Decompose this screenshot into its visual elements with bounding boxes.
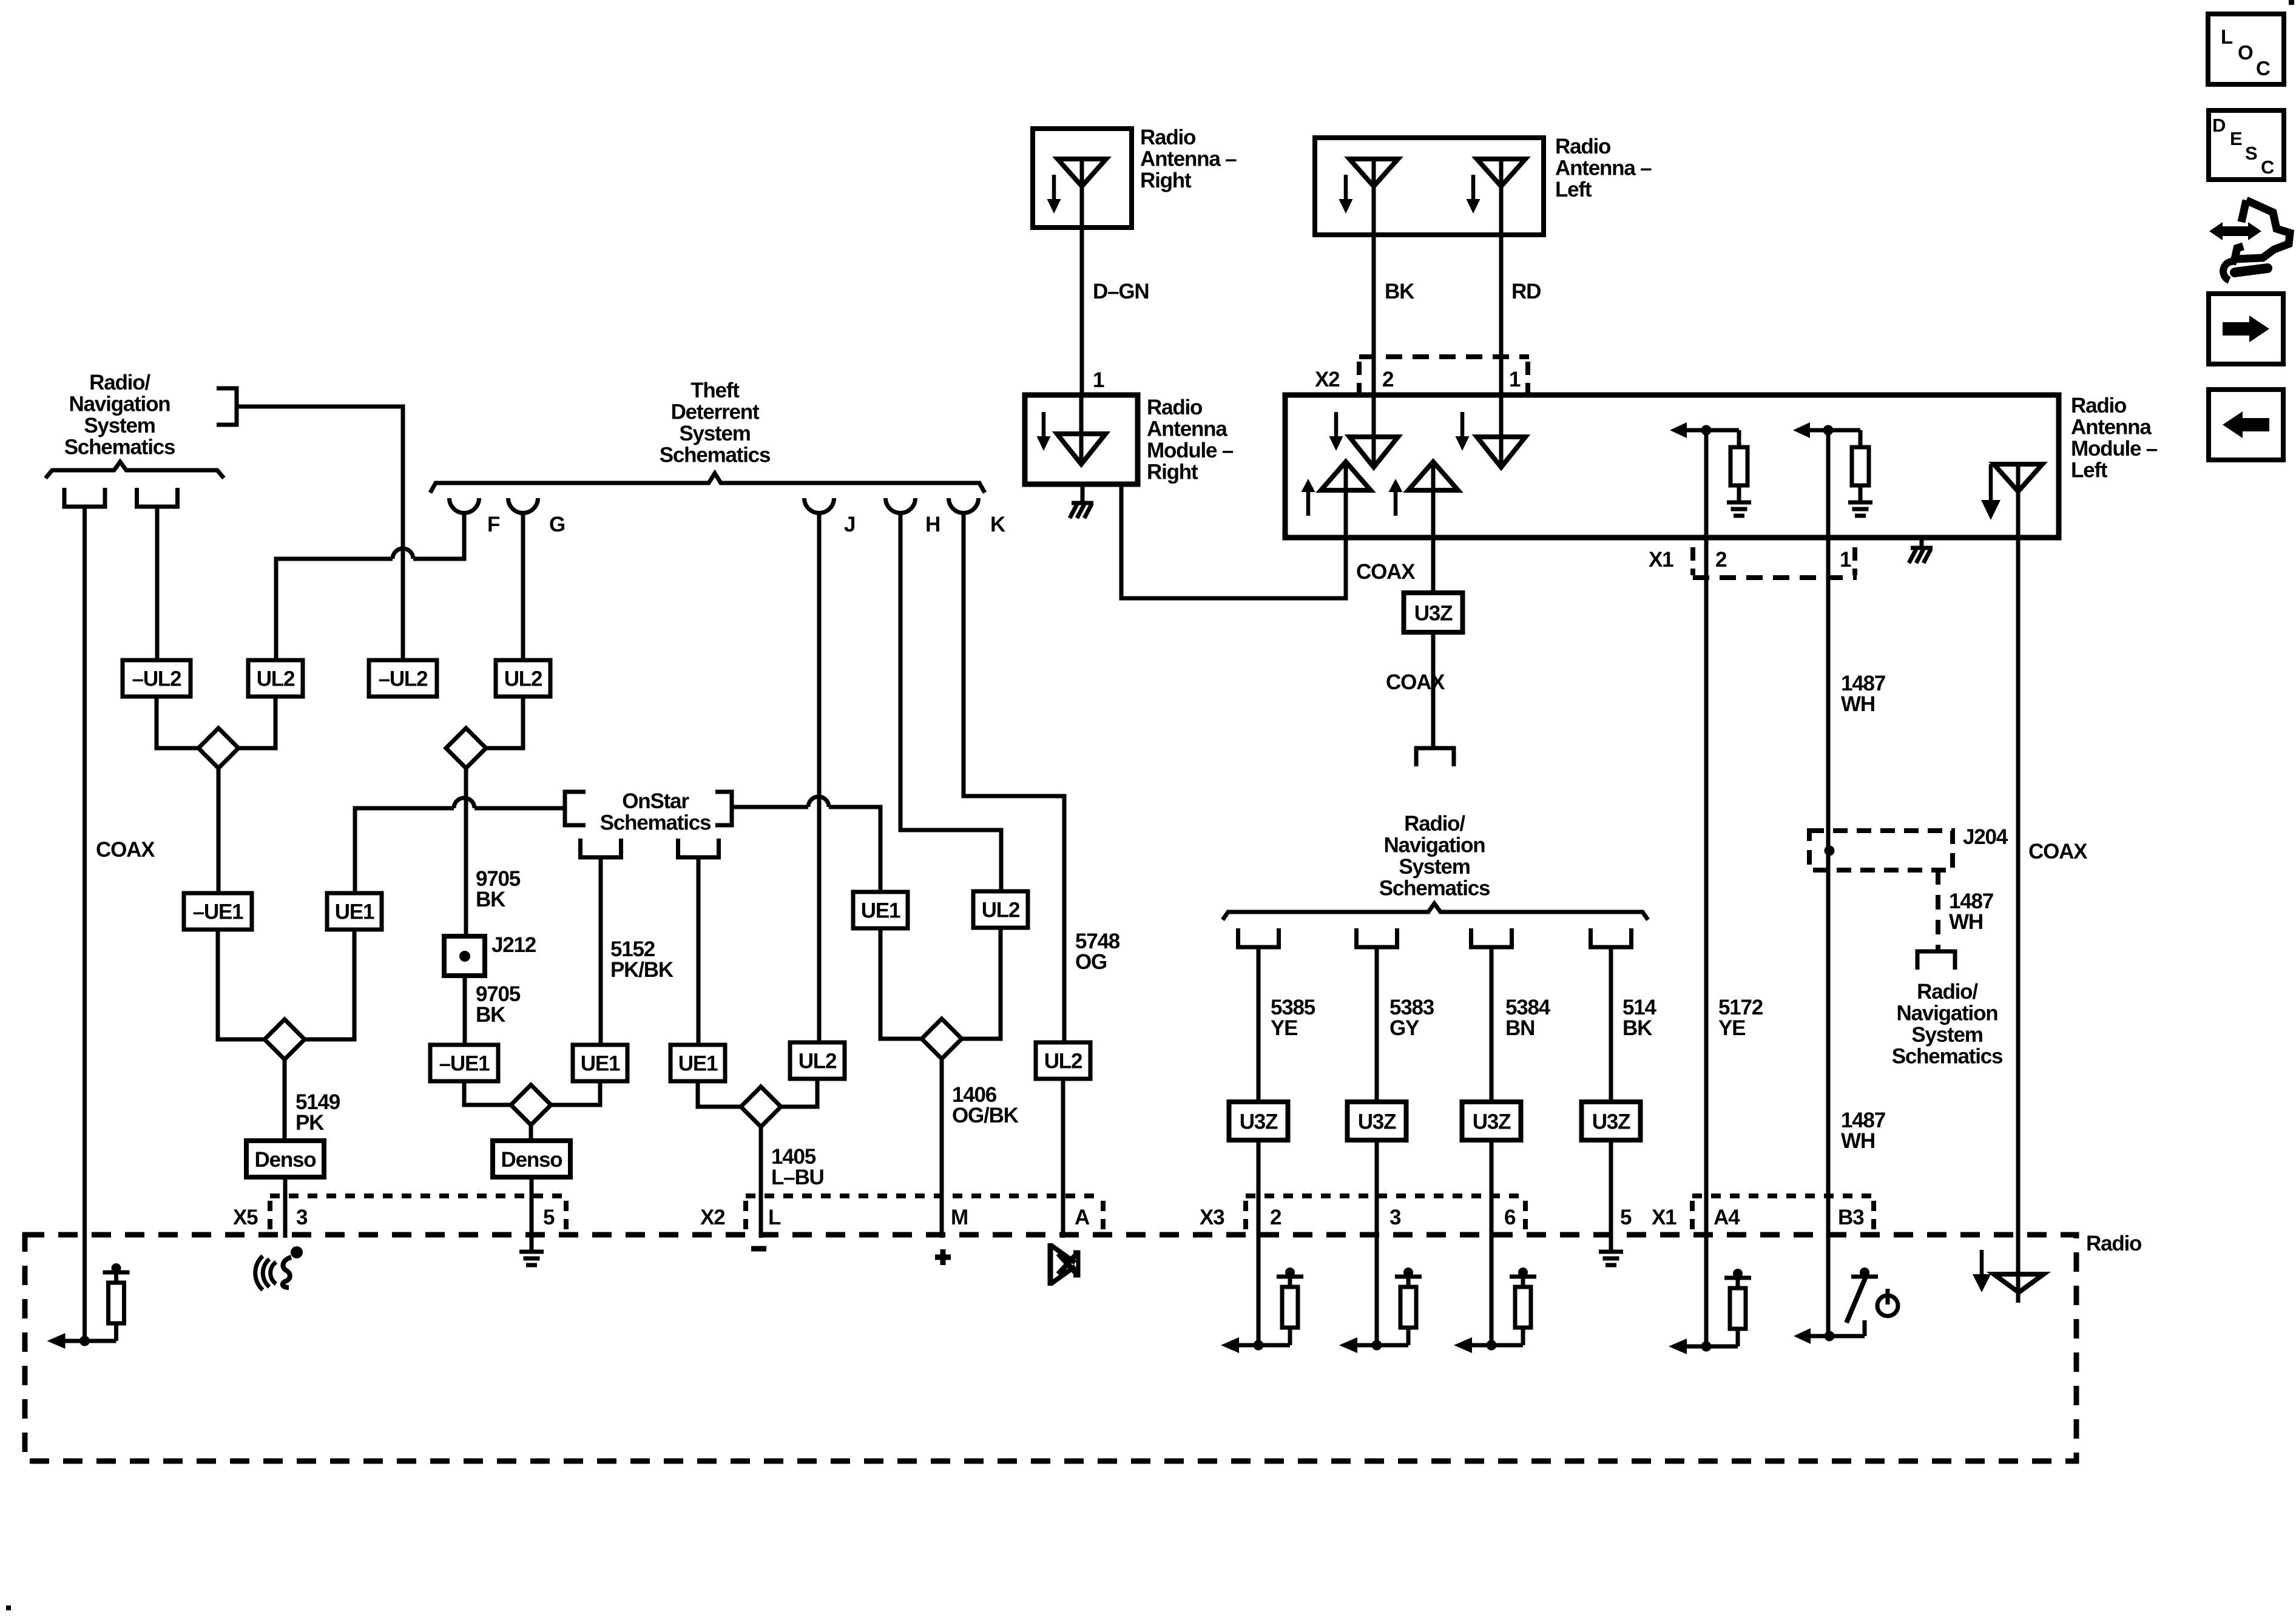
option box UL2 c on J wire	[790, 1042, 845, 1079]
option box UL2 d on H wire	[973, 891, 1028, 928]
brace for radio navigation schematics bottom middle	[1223, 903, 1648, 920]
wire 5383 GY	[1375, 947, 1379, 1102]
svg-text:X1: X1	[1652, 1206, 1676, 1229]
connector to radio navigation schematics (J204 branch)	[1917, 951, 1955, 970]
wire BK from Radio Antenna Left to module pin 2	[1372, 235, 1376, 395]
dashed branch wire from J204	[1936, 870, 1940, 951]
svg-text:A: A	[1075, 1206, 1090, 1229]
wire 5152 PK/BK	[599, 857, 603, 1045]
svg-text:Left: Left	[1555, 178, 1592, 201]
svg-text:C: C	[2256, 57, 2271, 79]
svg-text:Schematics: Schematics	[1892, 1045, 2003, 1068]
wire COAX far left	[83, 507, 87, 1341]
connector X1 dashed line of module left	[1693, 575, 1857, 580]
termination resistor network at radio pin 2	[1221, 1337, 1239, 1353]
option box UL2 e on K wire	[1036, 1042, 1090, 1079]
signal arrow up 1 in module left	[1306, 490, 1311, 516]
option box UE1 a	[327, 893, 382, 930]
wire UE1 d to splice 5	[880, 928, 922, 1039]
connector K half circle	[949, 498, 979, 513]
OnStar left bracket	[565, 792, 586, 825]
wire COAX below U3Z	[1431, 632, 1436, 748]
plus sign below pin M	[935, 1255, 951, 1260]
icon box arrow right	[2209, 294, 2283, 364]
Radio Antenna - Left box	[1315, 138, 1544, 235]
wire 5385 YE	[1257, 947, 1261, 1102]
svg-text:Schematics: Schematics	[600, 811, 711, 835]
svg-text:U3Z: U3Z	[1240, 1110, 1278, 1134]
svg-text:Radio: Radio	[2071, 394, 2127, 417]
wire OnStar left continue	[474, 806, 565, 811]
svg-text:–UE1: –UE1	[193, 900, 243, 924]
connector X2 dotted outline at radio	[746, 1193, 1103, 1198]
wire from off-page bracket to -UL2 b	[237, 407, 403, 554]
wire 5172 YE from module left pin 2	[1704, 430, 1709, 1346]
svg-text:System: System	[84, 414, 155, 437]
wire from OnStar right bracket	[732, 805, 808, 809]
svg-text:U3Z: U3Z	[1358, 1110, 1396, 1134]
antenna symbol in Radio Antenna - Right	[1058, 159, 1106, 186]
svg-text:BN: BN	[1505, 1016, 1535, 1040]
wire UL2 e to radio pin A	[1061, 1079, 1065, 1238]
microphone symbol inside radio	[255, 1246, 303, 1290]
wire splice2 to J212 9705 BK	[464, 768, 468, 936]
svg-text:U3Z: U3Z	[1414, 602, 1453, 626]
antenna down 2 in module left	[1477, 437, 1525, 467]
option box UL2 b	[496, 660, 550, 697]
brace for radio navigation schematics top left	[46, 462, 224, 478]
svg-text:Radio: Radio	[2086, 1232, 2142, 1255]
switch contact bar	[1851, 1275, 1878, 1279]
svg-text:Radio: Radio	[1140, 126, 1196, 149]
signal arrow down 2 in module left	[1460, 412, 1465, 438]
svg-text:–UE1: –UE1	[439, 1052, 490, 1076]
svg-text:UE1: UE1	[678, 1052, 718, 1076]
wire 5384 BN	[1490, 947, 1494, 1102]
connector X2 tick left	[1357, 362, 1362, 393]
icon box DESC	[2209, 110, 2284, 180]
hop bump on OnStar left wire at x766	[454, 798, 474, 808]
page artifact dot bottom left	[6, 1605, 11, 1610]
svg-text:RD: RD	[1511, 280, 1541, 303]
connector J half circle	[805, 498, 834, 513]
svg-text:WH: WH	[1841, 1129, 1875, 1153]
U3Z box 1	[1229, 1102, 1288, 1140]
svg-text:O: O	[2238, 41, 2254, 64]
svg-text:Navigation: Navigation	[1384, 834, 1485, 857]
antenna symbol at radio coax right	[1994, 1274, 2044, 1292]
svg-text:UL2: UL2	[257, 667, 295, 691]
wire UL2 b to splice 2	[486, 697, 523, 748]
wire COAX from module right to antenna up 1	[1121, 484, 1346, 598]
hop bump on F wire over -UL2 wire	[393, 549, 413, 559]
U3Z box 2	[1348, 1102, 1406, 1140]
wire J connector drop	[817, 513, 822, 1042]
module left internal arrow tap 1	[1670, 422, 1687, 438]
svg-text:5: 5	[1620, 1206, 1632, 1229]
splice J212 box	[444, 936, 485, 976]
minus sign below pin L	[751, 1246, 766, 1252]
svg-text:Denso: Denso	[501, 1148, 563, 1172]
wire U3Z 2 to radio pin 3	[1375, 1140, 1379, 1345]
svg-text:Antenna: Antenna	[2071, 416, 2152, 439]
svg-text:Schematics: Schematics	[660, 444, 771, 467]
svg-text:BK: BK	[1622, 1016, 1652, 1040]
wire UL2 a to splice	[238, 697, 275, 748]
antenna down 1 in module left	[1349, 437, 1398, 467]
svg-text:–UL2: –UL2	[379, 667, 428, 691]
wire F to UL2 a	[276, 559, 393, 660]
antenna up 2 in module left	[1408, 462, 1458, 490]
connector OnStar schematics right	[678, 839, 719, 857]
svg-text:COAX: COAX	[1386, 670, 1445, 694]
svg-text:X2: X2	[700, 1206, 725, 1229]
svg-text:L: L	[2221, 25, 2233, 48]
connector X1 tick left	[1690, 547, 1695, 575]
svg-text:2: 2	[1715, 548, 1727, 572]
svg-text:System: System	[1399, 855, 1470, 879]
splice diamond 1	[198, 728, 238, 768]
svg-text:Antenna: Antenna	[1147, 417, 1227, 441]
signal arrow down right in module left	[1989, 464, 1993, 502]
svg-text:OG: OG	[1075, 950, 1107, 974]
svg-text:X1: X1	[1649, 548, 1673, 572]
svg-text:3: 3	[296, 1206, 308, 1229]
wire Denso 1 to radio pin 3	[283, 1177, 288, 1238]
connector OnStar schematics left	[581, 839, 621, 857]
connector X2 tick right	[1525, 362, 1530, 393]
svg-text:G: G	[549, 513, 565, 536]
connector radio nav 1	[1238, 928, 1279, 947]
wire K connector drop	[964, 513, 1064, 1042]
svg-text:D–GN: D–GN	[1093, 280, 1149, 303]
signal ground 2 in module left	[1859, 485, 1863, 502]
svg-text:X3: X3	[1200, 1206, 1224, 1229]
svg-text:Schematics: Schematics	[1379, 877, 1490, 900]
option box -UL2 a	[123, 660, 191, 697]
signal arrow up 2 in module left	[1394, 490, 1398, 516]
connector to radio navigation schematics left coax	[64, 488, 105, 507]
wire UE1 a to splice 3	[305, 930, 354, 1039]
svg-text:1: 1	[1509, 368, 1521, 391]
wire -UE1 a to splice 3	[218, 930, 265, 1039]
splice pack J204 dashed box	[1809, 831, 1953, 870]
page artifact dot top right	[2289, 0, 2294, 5]
svg-text:Theft: Theft	[690, 379, 740, 402]
termination resistor network at radio pin 6	[1454, 1337, 1472, 1353]
connector X3 dotted outline at radio	[1246, 1193, 1525, 1198]
svg-text:PK/BK: PK/BK	[610, 958, 674, 982]
wire splice4 to Denso 2	[529, 1125, 533, 1141]
svg-text:2: 2	[1270, 1206, 1281, 1229]
signal arrow in module right	[1042, 412, 1046, 438]
antenna symbol in module right	[1057, 434, 1106, 464]
svg-text:E: E	[2230, 128, 2243, 149]
svg-text:UE1: UE1	[335, 900, 374, 924]
svg-text:M: M	[951, 1206, 968, 1229]
wire RD from Radio Antenna Left to module pin 1	[1499, 235, 1504, 395]
off-page bracket connector top left	[217, 388, 237, 425]
svg-text:Deterrent: Deterrent	[671, 400, 760, 424]
signal arrow 1 in Radio Antenna - Left	[1344, 175, 1348, 201]
connector X1 tick right	[1852, 547, 1857, 575]
chassis ground under module left	[1920, 538, 1924, 547]
svg-text:Navigation: Navigation	[69, 393, 171, 416]
svg-text:COAX: COAX	[2028, 840, 2088, 863]
svg-text:UL2: UL2	[1044, 1050, 1082, 1073]
svg-text:UE1: UE1	[581, 1052, 620, 1076]
wire F connector drop	[413, 513, 464, 559]
signal arrow in Radio Antenna - Right	[1052, 175, 1056, 201]
svg-text:6: 6	[1504, 1206, 1516, 1229]
connector F half circle	[450, 498, 479, 513]
svg-text:COAX: COAX	[96, 838, 155, 862]
connector G half circle	[508, 498, 538, 513]
wire U3Z 3 to radio pin 6	[1490, 1140, 1494, 1345]
svg-text:B3: B3	[1838, 1206, 1864, 1229]
signal ground at radio X3 pin 5	[1599, 1250, 1623, 1254]
svg-text:F: F	[487, 513, 500, 536]
svg-text:WH: WH	[1949, 910, 1983, 934]
splice diamond 5	[922, 1019, 962, 1059]
svg-text:C: C	[2261, 157, 2274, 178]
U3Z option box on coax	[1404, 593, 1463, 632]
svg-text:Right: Right	[1140, 169, 1192, 192]
wire splice1 to -UE1 a	[217, 768, 221, 893]
wire G connector drop	[521, 513, 525, 660]
svg-text:Module –: Module –	[1147, 439, 1234, 462]
svg-text:Radio: Radio	[1147, 396, 1203, 419]
wire Denso 2 to radio pin 5 ground	[530, 1177, 534, 1252]
splice diamond 3	[265, 1019, 305, 1059]
connector radio nav 3	[1471, 928, 1512, 947]
svg-text:Radio/: Radio/	[1917, 980, 1978, 1004]
brace for theft deterrent schematics	[430, 473, 985, 493]
svg-text:U3Z: U3Z	[1592, 1110, 1630, 1134]
termination resistor network at radio coax left	[47, 1333, 66, 1349]
termination resistor network at radio pin 3	[1339, 1337, 1357, 1353]
svg-text:OG/BK: OG/BK	[952, 1104, 1019, 1127]
wire from antenna up 2 to U3Z	[1431, 491, 1436, 593]
U3Z box 3	[1462, 1102, 1521, 1140]
svg-text:Radio: Radio	[1555, 135, 1611, 158]
connector radio nav 4	[1591, 928, 1632, 947]
svg-text:WH: WH	[1841, 692, 1875, 716]
wire D-GN from Radio Antenna Right pin to module	[1080, 228, 1084, 395]
connector X1 dotted outline at radio	[1692, 1193, 1874, 1198]
Radio Antenna Module - Right box	[1025, 395, 1138, 484]
chassis ground under module right	[1081, 484, 1085, 502]
svg-text:Navigation: Navigation	[1897, 1002, 1998, 1025]
module left internal resistor 1	[1737, 430, 1741, 447]
svg-text:UE1: UE1	[861, 899, 900, 923]
svg-text:2: 2	[1382, 368, 1394, 391]
wire U3Z 4 to radio pin 5 ground	[1609, 1140, 1613, 1252]
Denso box 2	[493, 1141, 570, 1177]
junction dot J204	[1825, 846, 1835, 856]
svg-text:1: 1	[1840, 548, 1851, 572]
option box -UL2 b	[369, 660, 437, 697]
termination resistor network at radio pin A4	[1669, 1338, 1687, 1354]
svg-text:Denso: Denso	[255, 1148, 317, 1172]
switch blade	[1846, 1275, 1866, 1323]
svg-text:X5: X5	[233, 1206, 258, 1229]
wire splice6 to radio pin L	[759, 1127, 763, 1238]
wire U3Z 1 to radio pin 2	[1257, 1140, 1261, 1345]
svg-text:System: System	[1911, 1023, 1982, 1047]
svg-text:Radio/: Radio/	[1404, 812, 1465, 836]
option box -UE1 a	[184, 893, 252, 930]
antenna down right in module left	[1994, 464, 2042, 491]
power symbol	[1877, 1295, 1898, 1316]
svg-text:UL2: UL2	[504, 667, 542, 691]
svg-text:J: J	[844, 513, 855, 536]
svg-text:S: S	[2245, 143, 2258, 164]
svg-text:H: H	[925, 513, 940, 536]
wire OnStar right continue to UE1 d	[829, 807, 880, 892]
svg-text:Module –: Module –	[2071, 437, 2158, 461]
connector radio nav 2	[1357, 928, 1397, 947]
module left internal resistor 2	[1859, 430, 1863, 447]
svg-text:PK: PK	[295, 1111, 324, 1135]
svg-text:L: L	[768, 1206, 781, 1229]
Denso box 1	[246, 1141, 324, 1177]
option box UE1 c	[670, 1045, 725, 1081]
svg-text:A4: A4	[1714, 1206, 1740, 1229]
splice diamond 2	[446, 728, 486, 768]
wire COAX right from module left antenna	[2016, 464, 2021, 1303]
svg-text:Schematics: Schematics	[64, 436, 175, 459]
svg-text:Radio/: Radio/	[89, 371, 150, 394]
icon box arrow left	[2209, 390, 2283, 460]
wire UE1 c to splice 6	[698, 1081, 741, 1107]
signal ground 1 in module left	[1737, 485, 1741, 502]
svg-text:UL2: UL2	[982, 899, 1020, 922]
svg-text:D: D	[2212, 115, 2226, 136]
wire splice5 to radio pin M	[940, 1059, 944, 1238]
svg-text:1: 1	[1093, 368, 1104, 392]
svg-text:3: 3	[1389, 1206, 1401, 1229]
splice diamond 6	[741, 1087, 781, 1127]
signal arrow down 1 in module left	[1334, 412, 1339, 438]
junction dot J212	[459, 951, 470, 962]
wire UL2 c to splice 6	[781, 1079, 817, 1107]
svg-text:UL2: UL2	[799, 1050, 837, 1073]
svg-text:BK: BK	[476, 888, 505, 911]
wire -UL2 to splice	[157, 697, 198, 748]
Radio Antenna Module - Left box	[1285, 395, 2059, 538]
antenna symbol 2 in Radio Antenna - Left	[1477, 159, 1525, 186]
svg-text:U3Z: U3Z	[1473, 1110, 1511, 1134]
wire UE1 a up to OnStar bracket	[355, 808, 454, 892]
OnStar right bracket	[715, 792, 732, 825]
wire -UL2 b continue	[401, 554, 405, 660]
svg-text:BK: BK	[476, 1003, 505, 1027]
connector to radio navigation schematics left ul2	[137, 488, 178, 507]
Radio dashed outline box	[25, 1235, 2076, 1461]
svg-text:Antenna –: Antenna –	[1555, 157, 1652, 180]
Radio Antenna - Right box	[1033, 129, 1132, 228]
wire J212 to -UE1 b	[463, 976, 467, 1045]
signal ground at radio pin 5 left	[519, 1250, 544, 1254]
svg-text:–UL2: –UL2	[132, 667, 182, 691]
muted speaker symbol below pin A	[1050, 1243, 1078, 1286]
option box -UE1 b	[430, 1045, 498, 1081]
option box UE1 d	[853, 892, 908, 928]
svg-text:OnStar: OnStar	[622, 789, 689, 813]
svg-text:Right: Right	[1147, 461, 1198, 484]
svg-text:5: 5	[543, 1206, 555, 1229]
svg-text:Left: Left	[2071, 459, 2108, 482]
signal arrow 2 in Radio Antenna - Left	[1471, 175, 1476, 201]
svg-text:J204: J204	[1963, 825, 2008, 849]
svg-text:COAX: COAX	[1356, 560, 1416, 584]
svg-text:System: System	[679, 422, 750, 445]
antenna symbol 1 in Radio Antenna - Left	[1349, 159, 1398, 186]
splice diamond 4	[511, 1085, 551, 1125]
signal arrow at radio coax right	[1980, 1250, 1984, 1276]
wire 1487 WH from module left pin 1	[1826, 430, 1831, 1336]
wire splice3 to Denso 1	[283, 1059, 287, 1141]
svg-text:BK: BK	[1385, 280, 1414, 303]
antenna up 1 in module left	[1321, 462, 1371, 490]
icon box LOC	[2208, 14, 2284, 84]
wire UL2 d to splice 5	[962, 928, 1001, 1039]
module left internal arrow tap 2	[1793, 422, 1810, 438]
svg-text:GY: GY	[1389, 1016, 1419, 1040]
wire -UL2 drop from left connector	[155, 507, 160, 660]
connector X2 dashed line of Radio Antenna Module - Left	[1359, 354, 1529, 359]
connector H half circle	[886, 498, 916, 513]
wire 514 BK	[1609, 947, 1613, 1102]
connector to other schematic (coax end)	[1416, 748, 1454, 766]
U3Z box 4	[1582, 1102, 1641, 1140]
option box UL2 a	[248, 660, 303, 697]
svg-text:X2: X2	[1315, 368, 1340, 391]
icon two-way arrow with wrench	[2209, 200, 2290, 280]
svg-text:J212: J212	[491, 933, 536, 957]
svg-text:Antenna –: Antenna –	[1140, 147, 1237, 171]
svg-text:YE: YE	[1718, 1016, 1745, 1040]
power switch at radio pin B3	[1794, 1328, 1811, 1344]
wire UE1 b to splice 4	[551, 1081, 600, 1105]
hop bump on OnStar right wire at J	[808, 797, 829, 807]
svg-text:YE: YE	[1271, 1016, 1297, 1040]
wire from OnStar right connector to UE1 c	[697, 857, 701, 1045]
wire H connector drop	[900, 513, 1001, 891]
svg-text:K: K	[990, 513, 1005, 536]
wire -UE1 b to splice 4	[464, 1081, 511, 1105]
option box UE1 b	[573, 1045, 627, 1081]
svg-text:L–BU: L–BU	[771, 1166, 824, 1189]
connector X5 dotted outline at radio	[270, 1193, 566, 1198]
